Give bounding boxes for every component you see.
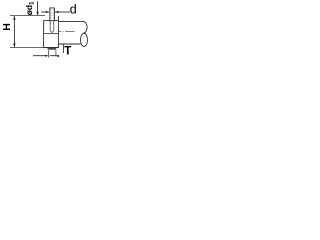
arrowhead bottom dim (points right) (45, 55, 48, 57)
dimension line ød1 (37, 1, 39, 15)
body mid feature line (44, 33, 59, 35)
arrowhead ød1 down (36, 12, 38, 16)
svg-text:d: d (70, 3, 77, 17)
base bar under body (48, 48, 57, 49)
arrowhead H bottom (13, 43, 15, 47)
arrowhead d right (points left) (55, 11, 59, 13)
extension line top (H/ød1 reference) (10, 15, 45, 17)
arrowhead d left (points right) (46, 11, 50, 13)
arrowhead H top (13, 16, 15, 20)
bottom dimension leader (33, 55, 47, 57)
T extension line (62, 44, 64, 53)
svg-text:T: T (64, 45, 71, 57)
svg-text:H: H (1, 23, 13, 31)
body right edge upper segment (57, 16, 59, 21)
end face ellipse (81, 33, 88, 46)
bottom ext line left (48, 50, 50, 57)
stem (shaft, front view) (50, 8, 55, 21)
d dimension right leader (55, 11, 70, 13)
centerline (dash-dot) (59, 31, 77, 33)
body front view (44, 21, 59, 48)
arrowhead bottom right (points left) (56, 55, 59, 57)
cylinder right end cap (84, 22, 88, 33)
hole bottom U (50, 21, 54, 32)
extension line bottom (H reference) (10, 47, 59, 49)
dimension line H (13, 16, 15, 47)
cylinder bottom line (58, 43, 80, 45)
cylinder top line (58, 21, 83, 23)
bottom ext line right (55, 50, 57, 56)
d dimension left leader (41, 11, 49, 13)
hidden hole dashed lines (50, 9, 52, 24)
